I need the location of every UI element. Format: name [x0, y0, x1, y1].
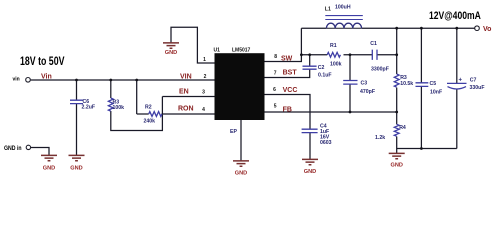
svg-text:EP: EP [230, 129, 237, 135]
junction C3/FB [349, 111, 352, 114]
svg-text:GND: GND [235, 171, 247, 177]
svg-text:U1: U1 [214, 48, 221, 54]
svg-text:C2: C2 [318, 65, 325, 71]
svg-text:GND: GND [390, 163, 402, 169]
capacitor C6 plates [70, 100, 83, 103]
wire C1 to divider column [377, 54, 397, 56]
wire C6 bottom to ground [76, 104, 78, 155]
svg-text:R1: R1 [330, 43, 337, 49]
junction C3/ripple branch [349, 53, 352, 56]
svg-text:RON: RON [178, 106, 194, 113]
wire R3 top [110, 80, 112, 98]
wire C6 top drop [76, 80, 78, 100]
svg-text:Vo: Vo [483, 26, 491, 33]
svg-text:EN: EN [179, 89, 189, 96]
wire R1 to C1 [344, 54, 373, 56]
junction R2/VIN [135, 79, 138, 82]
svg-text:8: 8 [274, 54, 277, 60]
ground symbol (C4) [302, 159, 318, 164]
capacitor C2 plates [303, 66, 317, 69]
svg-text:BST: BST [283, 70, 298, 77]
wire C2 bottom to BST [265, 69, 310, 77]
wire C2 top [309, 55, 311, 66]
svg-text:FB: FB [283, 107, 292, 114]
svg-text:GND: GND [304, 169, 316, 175]
wire RON to pin4 [162, 113, 215, 115]
inductor L1 core lines [325, 16, 363, 20]
capacitor C5 plates [416, 83, 429, 87]
terminal Vin circle [26, 78, 31, 83]
svg-text:C1: C1 [370, 41, 377, 47]
wire C7 column top [456, 28, 458, 83]
svg-text:R2: R2 [145, 105, 152, 111]
capacitor C7 top plate [447, 82, 467, 84]
wire R3 bottom to FB junction [396, 88, 398, 125]
svg-text:GND: GND [70, 166, 82, 172]
junction rail/C7 [455, 27, 458, 30]
ground symbol (R4) [389, 153, 405, 158]
wire C7 bottom [456, 89, 458, 149]
wire top rail to inductor [301, 27, 326, 29]
junction divider/FB [395, 111, 398, 114]
wire FB line [265, 111, 397, 113]
junction C1/divider column [395, 53, 398, 56]
svg-text:6: 6 [273, 87, 276, 93]
wire C5 column top [420, 28, 422, 83]
terminal GND in circle [26, 145, 30, 149]
junction C2/ripple branch [308, 53, 311, 56]
svg-text:12V@400mA: 12V@400mA [429, 10, 481, 22]
svg-text:470pF: 470pF [360, 89, 375, 95]
svg-text:VCC: VCC [283, 87, 298, 94]
svg-text:GND: GND [165, 50, 177, 56]
ground symbol (C6) [69, 155, 85, 160]
svg-text:0.1uF: 0.1uF [318, 73, 332, 79]
svg-text:+: + [459, 78, 463, 84]
junction ground line/C5 [420, 147, 423, 150]
svg-text:GND in: GND in [4, 146, 22, 153]
wire R4 bottom [396, 137, 398, 154]
svg-text:5: 5 [274, 104, 277, 110]
resistor R3 zigzag (left 100k) [108, 98, 113, 111]
svg-text:2.2uF: 2.2uF [82, 105, 96, 111]
svg-text:Vin: Vin [41, 74, 52, 81]
svg-text:vin: vin [13, 77, 20, 83]
wire divider column top [396, 28, 398, 74]
svg-text:100k: 100k [330, 62, 342, 68]
capacitor C1 plates [372, 50, 377, 60]
junction SW riser/ripple branch [300, 53, 303, 56]
junction rail/divider [395, 27, 398, 30]
wire ripple branch [301, 54, 327, 56]
wire GND in terminal [31, 148, 49, 156]
wire output ground line [397, 148, 457, 150]
resistor R4 zigzag (1.2k) [394, 124, 399, 136]
wire C3 top [349, 55, 351, 81]
svg-text:10.5k: 10.5k [400, 81, 413, 87]
svg-text:7: 7 [274, 71, 277, 77]
wire VIN rail [31, 79, 215, 81]
junction C6/VIN [75, 79, 78, 82]
svg-text:0603: 0603 [320, 140, 332, 146]
svg-text:C5: C5 [430, 81, 437, 87]
wire EN to pin3 [162, 96, 214, 98]
junction R3/VIN [109, 79, 112, 82]
svg-text:C7: C7 [470, 78, 477, 84]
wire under inductor coil [326, 27, 361, 29]
svg-text:330uF: 330uF [470, 85, 485, 91]
wire VCC to C4 [265, 95, 311, 130]
resistor R3 zigzag (right 10.5k) [394, 74, 399, 87]
capacitor C4 plates [302, 129, 318, 132]
wire C5 bottom [420, 86, 422, 148]
wire R2 riser [136, 80, 138, 114]
svg-text:1: 1 [203, 57, 206, 63]
ground symbol (GND in) [41, 155, 57, 160]
svg-text:C3: C3 [361, 81, 368, 87]
svg-text:SW: SW [281, 55, 293, 62]
wire C4 bottom to ground [309, 133, 311, 159]
svg-text:4: 4 [202, 107, 205, 113]
svg-text:18V to 50V: 18V to 50V [20, 56, 64, 69]
terminal Vo circle [475, 26, 480, 31]
svg-text:100k: 100k [113, 105, 125, 111]
wire C3 bottom to FB [349, 84, 351, 112]
svg-text:2: 2 [204, 74, 207, 80]
svg-text:100uH: 100uH [335, 4, 351, 10]
svg-text:VIN: VIN [180, 74, 192, 81]
IC U1 body [215, 53, 265, 120]
svg-text:R3: R3 [400, 75, 407, 81]
svg-text:L1: L1 [325, 7, 331, 13]
svg-text:3: 3 [202, 90, 205, 96]
wire pin1 to top ground [171, 27, 215, 63]
svg-text:1.2k: 1.2k [375, 135, 385, 141]
junction rail/C5 [420, 27, 423, 30]
ground symbol (top, pin1) [163, 43, 179, 48]
capacitor C3 plates [343, 81, 357, 85]
wire EP pad to ground [240, 120, 242, 161]
svg-text:3300pF: 3300pF [371, 66, 389, 72]
svg-text:R4: R4 [399, 125, 406, 131]
svg-text:GND: GND [43, 166, 55, 172]
svg-text:10nF: 10nF [430, 89, 442, 95]
wire output rail [362, 27, 475, 29]
svg-text:240k: 240k [144, 119, 156, 125]
resistor R2 zigzag (240k) [149, 112, 162, 117]
capacitor C7 curved plate [448, 87, 467, 89]
wire SW to riser [265, 28, 302, 61]
svg-text:LM5017: LM5017 [232, 48, 251, 54]
resistor R1 zigzag (100k) [327, 52, 340, 57]
wire R3 bottom to EN riser [111, 97, 163, 131]
ground symbol (EP) [233, 161, 249, 166]
wire R2 left lead [137, 113, 149, 115]
inductor L1 coil [326, 23, 361, 28]
